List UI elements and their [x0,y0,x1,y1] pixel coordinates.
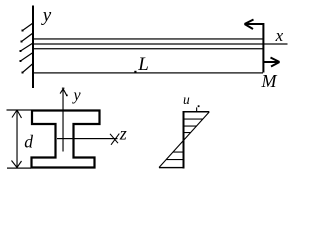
wall (fixed support line) [32,6,34,89]
wall hatch 4 [20,53,34,63]
dimension extension line bottom [7,168,31,169]
u-diagram top hatch lines [184,119,203,134]
section z axis [57,138,118,139]
u subscript tick (small i mark) [198,105,200,107]
x axis line [34,43,288,44]
section y axis [62,89,63,151]
u-diagram bottom edge [159,167,184,168]
dimension extension line top [7,109,32,110]
beam lower fiber line [34,48,263,49]
beam bottom edge [34,72,263,73]
wall hatch 3 [20,43,34,52]
wall hatch 1 [22,23,34,32]
u-diagram axis (vertical bar) [183,111,185,169]
u-diagram bottom hatch lines [166,152,183,161]
wall hatch 2 [21,33,34,43]
svg-text:x: x [275,26,284,45]
svg-text:M: M [261,71,278,91]
tick on bottom edge [134,71,136,73]
I-beam cross-section outline [32,111,100,168]
u-diagram top edge [184,111,209,113]
svg-text:u: u [183,92,190,107]
moment couple vertical bar [262,23,264,73]
svg-text:y: y [41,5,52,26]
wall hatch 5 [22,64,34,74]
dimension line d with arrowheads [16,110,17,168]
svg-text:z: z [119,123,127,143]
moment couple top arrow (pointing left) [245,20,264,30]
u-diagram slant line [159,112,209,168]
beam top fiber line [34,38,263,39]
moment couple bottom arrow (pointing right) [263,58,280,67]
svg-text:L: L [137,54,149,75]
svg-text:y: y [72,87,82,104]
svg-text:d: d [24,132,33,152]
